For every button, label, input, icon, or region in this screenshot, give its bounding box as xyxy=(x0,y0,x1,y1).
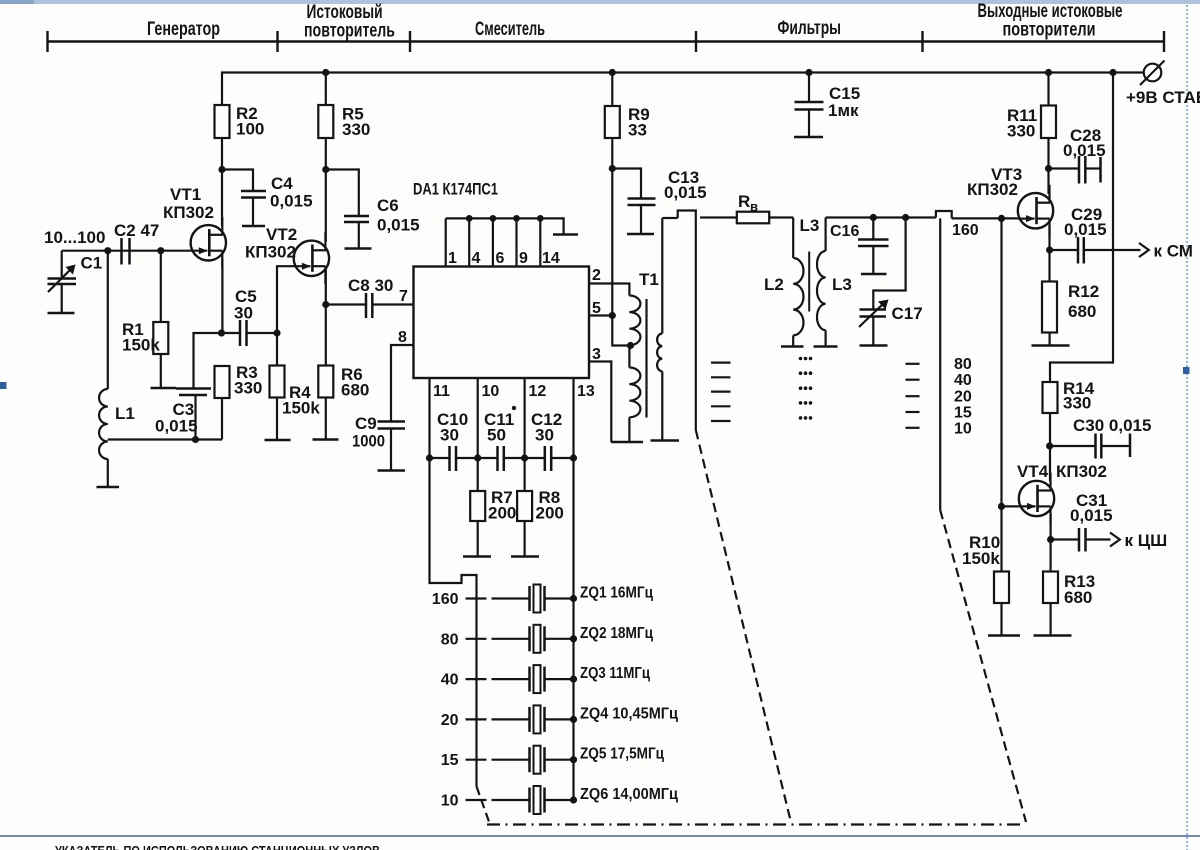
svg-text:Генератор: Генератор xyxy=(147,19,220,40)
bottom blue rule xyxy=(0,835,1200,837)
ground xyxy=(860,344,888,347)
capacitor C11 xyxy=(478,457,498,459)
wire VT1 source down xyxy=(221,259,223,334)
pin 5 wire xyxy=(589,314,612,316)
output arrow к СМ xyxy=(1139,243,1149,257)
resistor R14 xyxy=(1043,382,1058,413)
wire R2 to VT1 drain xyxy=(221,138,223,226)
svg-text:200: 200 xyxy=(488,504,516,523)
svg-text:40: 40 xyxy=(441,672,459,689)
svg-text:ZQ1 16МГц: ZQ1 16МГц xyxy=(580,585,653,602)
svg-text:160: 160 xyxy=(952,222,979,239)
svg-text:C16: C16 xyxy=(830,223,859,240)
svg-text:R12: R12 xyxy=(1068,282,1099,301)
svg-text:15: 15 xyxy=(954,405,972,422)
svg-text:330: 330 xyxy=(342,120,370,139)
pin 9 stub xyxy=(515,218,517,266)
pin 10 stub to bus xyxy=(477,378,479,458)
svg-text:0,015: 0,015 xyxy=(1063,141,1106,160)
ground xyxy=(345,247,372,250)
svg-text:15: 15 xyxy=(441,752,459,769)
svg-text:0,015: 0,015 xyxy=(377,216,420,235)
node pin10 bus xyxy=(474,454,481,461)
svg-text:VT4: VT4 xyxy=(1017,462,1049,481)
svg-text:7: 7 xyxy=(399,288,408,305)
svg-text:6: 6 xyxy=(496,250,505,267)
svg-text:+9В СТАБ: +9В СТАБ xyxy=(1126,88,1200,107)
switch SA2 pole line xyxy=(695,218,697,430)
node T1 centre tap xyxy=(627,342,634,349)
wire SA3 to VT3 gate xyxy=(952,217,1018,219)
ground xyxy=(511,555,539,558)
svg-text:20: 20 xyxy=(954,389,972,406)
capacitor C28 xyxy=(1049,167,1080,169)
svg-text:80: 80 xyxy=(441,631,459,648)
node C28 tap xyxy=(1045,165,1052,172)
tick right end xyxy=(1163,31,1165,52)
resistor R1 xyxy=(160,251,162,322)
node VT4 gate / R10 xyxy=(998,503,1005,510)
svg-text:VT2: VT2 xyxy=(266,225,297,244)
svg-text:к ЦШ: к ЦШ xyxy=(1125,531,1168,550)
ellipsis marks other band filters xyxy=(799,357,813,420)
pin 11 stub to bus xyxy=(428,378,430,458)
switch SA1 contact 15 row xyxy=(466,759,487,761)
node C30 tap xyxy=(1046,442,1053,449)
node pin5 tap xyxy=(609,312,616,319)
ground xyxy=(553,233,578,236)
capacitor C15 xyxy=(808,73,810,103)
transformer T1 secondary winding xyxy=(661,218,663,334)
wire gate column down to VT4 xyxy=(1000,218,1002,506)
pin 2 wire xyxy=(589,284,629,296)
svg-text:повторитель: повторитель xyxy=(304,21,395,42)
svg-text:330: 330 xyxy=(1007,122,1035,141)
pin 3 wire xyxy=(589,362,611,443)
wire R9 column down to T1 centre tap xyxy=(612,138,630,346)
ground xyxy=(242,225,265,228)
svg-text:к СМ: к СМ xyxy=(1154,242,1193,261)
svg-text:330: 330 xyxy=(234,379,262,398)
crystal ZQ5 17,5МГц xyxy=(492,746,665,774)
svg-text:в: в xyxy=(750,199,758,214)
crystal ZQ2 18МГц xyxy=(492,625,654,653)
crystal ZQ1 16МГц xyxy=(492,585,654,613)
node C17 branch xyxy=(902,214,909,221)
svg-text:Фильтры: Фильтры xyxy=(778,18,842,39)
resistor Rв xyxy=(710,216,737,218)
svg-text:12: 12 xyxy=(529,383,547,400)
node rail-VT4feed xyxy=(1109,69,1116,76)
svg-text:0,015: 0,015 xyxy=(1070,506,1113,525)
node VT1 source / C5 / R3 xyxy=(218,329,225,336)
ground xyxy=(378,469,406,472)
svg-text:R: R xyxy=(738,192,750,211)
svg-text:100: 100 xyxy=(236,120,264,139)
svg-text:5: 5 xyxy=(592,300,601,317)
resistor R9 xyxy=(611,73,613,107)
capacitor C5 xyxy=(222,332,241,334)
svg-text:30: 30 xyxy=(234,304,253,323)
capacitor C17 trimmer xyxy=(873,218,905,310)
node pin11 bus xyxy=(426,454,433,461)
top blue scrollbar strip xyxy=(0,0,1200,4)
wire VT2 gate xyxy=(277,266,294,333)
node rail-R9 xyxy=(609,69,616,76)
tick left end xyxy=(46,31,48,52)
resistor R3 xyxy=(215,366,230,398)
switch SA1 contact 80 row xyxy=(466,638,487,640)
svg-text:330: 330 xyxy=(1063,394,1091,413)
svg-text:150k: 150k xyxy=(282,399,320,418)
svg-text:33: 33 xyxy=(628,121,647,140)
node rail-R5 xyxy=(322,69,329,76)
wire VT3 source down xyxy=(1048,226,1050,282)
wire Rв to filter xyxy=(769,216,793,218)
svg-text:14: 14 xyxy=(542,250,560,267)
svg-text:L3: L3 xyxy=(832,275,852,294)
wire filter top to switch SA3 xyxy=(826,216,936,218)
svg-text:C17: C17 xyxy=(892,304,923,323)
svg-text:1000: 1000 xyxy=(352,432,385,451)
inductor L2 xyxy=(792,218,794,259)
svg-text:150k: 150k xyxy=(122,336,160,355)
svg-text:680: 680 xyxy=(341,381,369,400)
svg-text:1мк: 1мк xyxy=(828,101,859,120)
ground xyxy=(48,312,75,315)
wire +9V rail xyxy=(222,73,1144,106)
svg-text:50: 50 xyxy=(487,426,506,445)
filter core xyxy=(808,252,810,312)
wire R5 to VT2 drain xyxy=(325,138,327,242)
pin 13 stub to crystal bus xyxy=(572,378,574,801)
node VT2 source / C8 xyxy=(322,301,329,308)
svg-text:Смеситель: Смеситель xyxy=(475,19,545,40)
svg-text:11: 11 xyxy=(433,383,450,400)
wire VT4 gate xyxy=(1002,505,1019,507)
node VT1 drain / C4 xyxy=(218,166,225,173)
svg-text:L2: L2 xyxy=(764,275,784,294)
ground xyxy=(151,387,177,390)
wire VT4 source down xyxy=(1049,514,1051,572)
svg-text:20: 20 xyxy=(441,712,459,729)
transistor VT4 xyxy=(1019,473,1054,525)
svg-text:10: 10 xyxy=(441,793,459,810)
ground xyxy=(1032,344,1070,347)
capacitor C16 xyxy=(872,218,874,240)
resistor R10 xyxy=(1000,506,1002,571)
wire +9V feed to R14 xyxy=(1050,73,1113,383)
resistor R4 xyxy=(276,333,278,366)
svg-text:10: 10 xyxy=(954,421,972,438)
tick istok/mixer xyxy=(409,31,411,52)
svg-text:13: 13 xyxy=(577,383,595,400)
switch SA3 wiper notch xyxy=(936,211,952,218)
svg-text:DA1 К174ПС1: DA1 К174ПС1 xyxy=(413,180,498,199)
switch SA3 pole line xyxy=(939,218,941,510)
wire pin11 column to crystal switch pole xyxy=(430,458,477,787)
resistor R13 xyxy=(1043,572,1058,604)
ground xyxy=(651,439,680,442)
ground xyxy=(988,634,1020,637)
svg-text:ZQ5 17,5МГц: ZQ5 17,5МГц xyxy=(580,746,664,763)
switch SA3 gang dashed link xyxy=(940,510,1026,822)
node R5 / C6 / VT2 drain xyxy=(322,166,329,173)
svg-text:ZQ4 10,45МГц: ZQ4 10,45МГц xyxy=(580,705,678,722)
svg-text:0,015: 0,015 xyxy=(155,417,198,436)
resistor R11 xyxy=(1041,106,1056,139)
svg-text:C6: C6 xyxy=(377,196,399,215)
node C29/R12 xyxy=(1046,246,1053,253)
capacitor C8 xyxy=(326,303,366,305)
svg-text:10...100: 10...100 xyxy=(44,228,105,247)
svg-text:680: 680 xyxy=(1064,588,1092,607)
svg-text:200: 200 xyxy=(536,504,564,523)
svg-text:C2 47: C2 47 xyxy=(114,221,159,240)
gang coupling dash-dot line xyxy=(487,823,1023,825)
switch SA1 contact 20 row xyxy=(466,718,487,720)
left blue handle square xyxy=(0,382,7,389)
wire VT2 source down xyxy=(325,266,327,365)
svg-text:КП302: КП302 xyxy=(1056,462,1107,481)
pin 14 stub xyxy=(539,218,541,266)
svg-text:T1: T1 xyxy=(639,270,659,289)
svg-text:8: 8 xyxy=(398,329,407,346)
op-amp U1 / IC DA1 К174ПС1 body xyxy=(414,267,590,379)
transistor VT1 xyxy=(191,217,226,269)
wire top pins tie to ground xyxy=(446,218,564,234)
svg-text:ZQ3 11МГц: ZQ3 11МГц xyxy=(580,665,650,682)
svg-text:3: 3 xyxy=(592,346,601,363)
svg-text:40: 40 xyxy=(954,372,972,389)
switch SA2 contact dash 160 xyxy=(700,216,710,218)
ground xyxy=(627,233,654,236)
svg-text:0,015: 0,015 xyxy=(664,183,707,202)
capacitor C29 xyxy=(1050,249,1078,251)
svg-text:160: 160 xyxy=(432,591,459,608)
node pin12 bus xyxy=(521,454,528,461)
svg-text:1: 1 xyxy=(448,250,457,267)
wire R11 to VT3 drain xyxy=(1047,138,1049,194)
capacitor C30 xyxy=(1050,445,1096,447)
ground xyxy=(463,555,491,558)
svg-text:0,015: 0,015 xyxy=(270,192,313,211)
svg-text:2: 2 xyxy=(592,267,601,284)
capacitor C3 xyxy=(194,333,222,388)
transformer T1 core xyxy=(645,299,647,418)
power terminal +9В СТАБ xyxy=(1144,64,1162,82)
crystal ZQ3 11МГц xyxy=(492,665,651,693)
svg-text:4: 4 xyxy=(472,250,481,267)
switch SA2 wiper notch xyxy=(678,211,696,219)
svg-text:ZQ2 18МГц: ZQ2 18МГц xyxy=(580,625,653,642)
capacitor C12 xyxy=(525,457,545,459)
node C31/R13 xyxy=(1047,536,1054,543)
capacitor C1 variable 10...100 xyxy=(61,251,63,277)
svg-text:30: 30 xyxy=(440,426,459,445)
ground xyxy=(794,136,823,139)
switch SA3 contact dashes 80-10 xyxy=(906,363,920,365)
right blue handle square xyxy=(1183,367,1190,374)
svg-text:C9: C9 xyxy=(355,414,377,433)
node C16 xyxy=(870,214,877,221)
resistor R12 xyxy=(1042,282,1057,333)
tick generator/istok xyxy=(276,31,278,52)
node rail-R11 xyxy=(1045,69,1052,76)
pin 1 stub xyxy=(445,218,447,266)
svg-text:КП302: КП302 xyxy=(245,243,296,262)
svg-text:L1: L1 xyxy=(115,404,135,423)
svg-text:80: 80 xyxy=(954,356,972,373)
ground xyxy=(814,345,838,348)
svg-text:КП302: КП302 xyxy=(967,180,1018,199)
ground xyxy=(97,486,120,489)
ground xyxy=(781,345,804,348)
svg-text:30: 30 xyxy=(535,426,554,445)
node C3 bottom xyxy=(192,436,199,443)
output arrow к ЦШ xyxy=(1110,533,1120,547)
node R9/C13 xyxy=(609,165,616,172)
node C5 / VT2 gate / R4 xyxy=(273,329,280,336)
crystal ZQ4 10,45МГц xyxy=(492,705,679,733)
node rail-C15 xyxy=(805,69,812,76)
svg-text:10: 10 xyxy=(482,383,500,400)
pin 8 wire to C9 xyxy=(391,345,414,422)
node pin13 bus xyxy=(570,454,577,461)
switch SA1 contact 10 row xyxy=(466,799,487,801)
tick filters/outputs xyxy=(921,31,923,52)
resistor R5 xyxy=(325,73,327,106)
resistor R6 xyxy=(318,366,333,398)
node C1/L1 xyxy=(104,247,111,254)
tick mixer/filters xyxy=(695,31,697,52)
resistor R2 xyxy=(215,105,230,138)
svg-text:КП302: КП302 xyxy=(163,203,214,222)
switch SA2 gang dashed link xyxy=(696,430,791,823)
capacitor C13 xyxy=(612,169,641,199)
svg-text:повторители: повторители xyxy=(1003,20,1096,41)
ground xyxy=(1034,634,1072,637)
wire T1 secondary to switch SA2 xyxy=(662,217,677,219)
transistor VT2 xyxy=(294,232,329,284)
crystal ZQ6 14,00МГц xyxy=(492,786,679,814)
capacitor C4 xyxy=(222,170,253,192)
resistor R7 xyxy=(477,458,479,491)
ground xyxy=(313,438,339,441)
svg-text:C8 30: C8 30 xyxy=(348,276,393,295)
ground xyxy=(265,439,291,442)
capacitor C2 xyxy=(120,238,123,265)
svg-text:C4: C4 xyxy=(271,174,293,193)
transformer T1 primary winding a xyxy=(629,296,640,346)
capacitor C31 xyxy=(1051,538,1079,540)
transistor VT3 xyxy=(1018,185,1053,237)
capacitor C6 xyxy=(326,170,359,217)
node VT3/VT4 gate column xyxy=(998,215,1005,222)
svg-text:9: 9 xyxy=(519,250,528,267)
capacitor C9 xyxy=(378,420,406,423)
ground xyxy=(611,441,643,444)
svg-text:C30 0,015: C30 0,015 xyxy=(1073,416,1151,435)
right blue dotted guide line xyxy=(1186,5,1188,850)
resistor R8 xyxy=(523,458,525,491)
pin 12 stub to bus xyxy=(523,378,525,458)
switch SA2 contact dashes 80-10 xyxy=(711,362,731,364)
capacitor C10 xyxy=(430,457,450,459)
wire L1 to R3/C3 bottom xyxy=(108,438,222,440)
svg-text:L3: L3 xyxy=(800,216,820,235)
svg-text:150k: 150k xyxy=(962,549,1000,568)
section dimension line xyxy=(48,40,1165,42)
svg-text:0,015: 0,015 xyxy=(1064,220,1107,239)
wire gate bus C1-C2-R1-VT1 xyxy=(62,250,191,252)
svg-text:УКАЗАТЕЛЬ ПО ИСПОЛЬЗОВАНИЮ СТА: УКАЗАТЕЛЬ ПО ИСПОЛЬЗОВАНИЮ СТАНЦИОННЫХ У… xyxy=(55,844,380,850)
pin 4 stub xyxy=(468,218,470,266)
svg-text:VT1: VT1 xyxy=(170,185,201,204)
transformer T1 primary winding b xyxy=(628,346,630,368)
inductor L1 xyxy=(107,251,109,389)
wire switch pole dashed link xyxy=(477,787,491,825)
switch SA1 contact 40 row xyxy=(466,678,487,680)
svg-text:ZQ6 14,00МГц: ZQ6 14,00МГц xyxy=(580,786,678,803)
pin 6 stub xyxy=(492,218,494,266)
ground xyxy=(861,273,887,276)
node R1 tap xyxy=(157,247,164,254)
switch SA1 contact 160 row xyxy=(466,597,487,599)
svg-text:C1: C1 xyxy=(81,254,103,273)
inductor L3 (filter secondary) xyxy=(824,218,826,252)
svg-text:680: 680 xyxy=(1068,302,1096,321)
